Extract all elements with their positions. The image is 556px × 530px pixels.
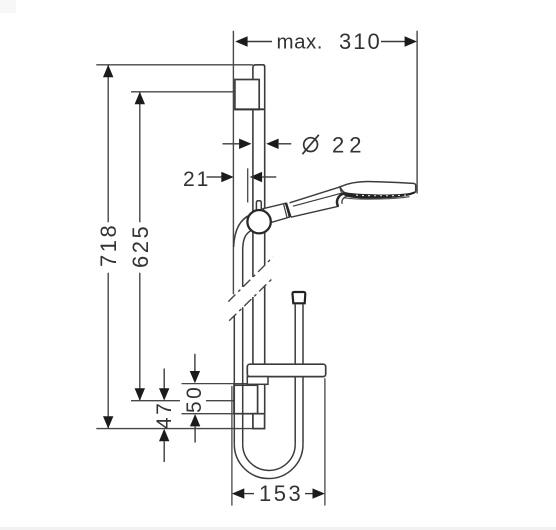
wire: hose upper-left inner bend bbox=[243, 230, 252, 287]
svg-text:47: 47 bbox=[153, 401, 176, 429]
dim 718 top reference line bbox=[96, 64, 253, 66]
dim 718 arrows bbox=[103, 65, 113, 77]
svg-text:max.: max. bbox=[277, 31, 323, 54]
dim 153 arrows + leaders bbox=[232, 488, 244, 498]
head left pivot crescent bbox=[337, 194, 347, 207]
dim 625 vertical line bbox=[139, 92, 141, 401]
svg-text:153: 153 bbox=[259, 481, 303, 506]
wall bracket top bbox=[235, 80, 259, 110]
handshower head body bbox=[340, 182, 416, 197]
dim dia22 leaders + arrows bbox=[223, 143, 240, 145]
shelf soap dish bbox=[247, 364, 325, 376]
dim 718 bottom reference line bbox=[96, 428, 253, 430]
slider release knob bbox=[256, 201, 261, 211]
rail left edge segments bbox=[252, 110, 254, 386]
handshower handle collar cone bbox=[263, 203, 289, 222]
break mark upper diagonal bbox=[228, 257, 273, 302]
svg-text:625: 625 bbox=[128, 224, 153, 268]
svg-text:718: 718 bbox=[96, 223, 121, 267]
rail right edge segments bbox=[264, 66, 266, 414]
handle inner line bbox=[293, 191, 348, 206]
dim 718 vertical line bbox=[107, 65, 109, 429]
dim 625 top reference line bbox=[131, 91, 235, 93]
handle grip band bbox=[284, 204, 288, 218]
head under-edge light line bbox=[344, 197, 410, 199]
rail tube top cap bbox=[253, 65, 265, 80]
dim 21 extension line bbox=[247, 168, 249, 202]
hose right run outer bbox=[302, 304, 304, 444]
slider ball joint bbox=[247, 210, 270, 233]
head pivot inner arc bbox=[342, 196, 348, 203]
dim 47 arrows bbox=[163, 369, 165, 390]
dim max310 left extension (wall plane) bbox=[232, 31, 234, 294]
wire: hose upper-left outer bend bbox=[234, 215, 251, 248]
hose left lower run inner bbox=[242, 307, 244, 444]
handle/head seam bbox=[340, 187, 342, 193]
hose conical connector nut bbox=[292, 292, 305, 303]
dim 153 left extension bbox=[231, 386, 233, 506]
dim 153 right extension bbox=[324, 378, 326, 505]
hose crossing bracket (front) bbox=[242, 385, 244, 414]
shelf mount tab bbox=[247, 377, 268, 385]
hose right run inner bbox=[294, 304, 296, 444]
spray face nozzle dots bbox=[356, 195, 406, 197]
wall bracket bottom bbox=[234, 385, 258, 414]
dim dia22 text bbox=[304, 138, 318, 152]
dim 21 leader + arrows bbox=[207, 176, 223, 178]
hose U-turn outer bbox=[234, 444, 303, 478]
handle top edge bbox=[290, 186, 342, 202]
dim max310 right extension bbox=[416, 31, 418, 194]
svg-text:21: 21 bbox=[183, 168, 210, 191]
dim 50 arrows bbox=[194, 354, 196, 372]
svg-text:22: 22 bbox=[332, 133, 366, 158]
handle bottom edge bbox=[291, 206, 339, 217]
dim 625 arrows bbox=[135, 92, 145, 104]
dim 50 top reference line bbox=[182, 383, 248, 385]
dim 625 bottom reference line bbox=[131, 400, 234, 402]
hose left lower run outer bbox=[233, 316, 235, 445]
svg-text:50: 50 bbox=[183, 385, 206, 413]
bracket bottom foot bbox=[253, 414, 265, 429]
spray face dark band bbox=[343, 192, 415, 198]
svg-text:310: 310 bbox=[339, 29, 382, 54]
dim max310 line + arrows bbox=[247, 41, 406, 43]
break mark lower diagonal bbox=[229, 279, 272, 321]
hose U-turn inner bbox=[243, 444, 296, 470]
dim 50 bottom reference line bbox=[182, 413, 235, 415]
